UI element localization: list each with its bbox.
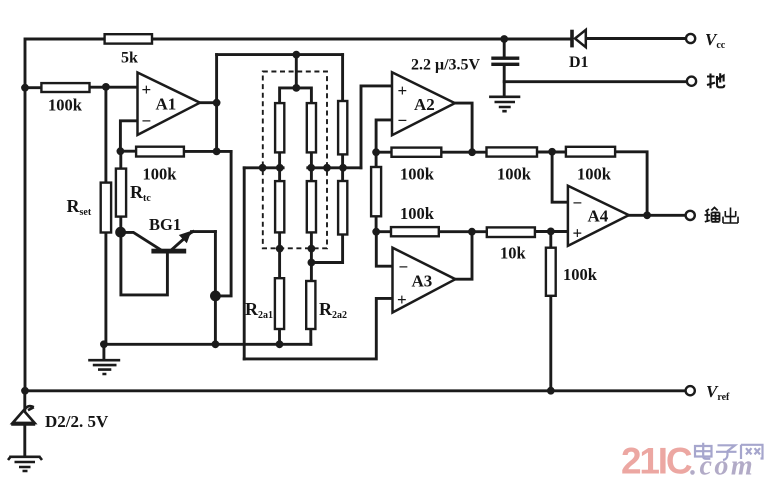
wire row1 segment a: [376, 151, 391, 154]
node dot col2 col3 join: [308, 259, 316, 267]
resistor R2a1: [275, 278, 284, 329]
wire col2 mid leads: [310, 152, 313, 181]
node dot midline col2: [307, 164, 315, 172]
resistor 100k A4 feedback: [566, 147, 615, 157]
resistor bridge col2 lower: [307, 181, 316, 232]
diode D1 bar: [570, 30, 574, 48]
logo chinese dianziwang: [695, 443, 763, 460]
node dot ground bus at R2a1: [276, 340, 284, 348]
svg-text:+: +: [142, 80, 152, 99]
wire A1 output: [200, 101, 217, 104]
wire zener stem upper: [23, 391, 26, 411]
node dot A1 output: [213, 99, 221, 107]
svg-text:100k: 100k: [577, 165, 612, 184]
wire bottom jog to A3 plus: [244, 298, 392, 359]
wire feedback row right: [184, 150, 231, 153]
svg-text:100k: 100k: [48, 96, 83, 115]
node dot y54 rail: [292, 51, 300, 59]
resistor 100k A1 feedback: [136, 147, 184, 157]
node dot midline dash left: [259, 164, 267, 172]
svg-text:21IC: 21IC: [621, 441, 692, 482]
transistor BG1 base lead: [121, 232, 167, 295]
svg-text:5k: 5k: [121, 50, 138, 67]
wire bridge midline right half: [308, 166, 361, 169]
resistor 100k vertical x551: [546, 248, 556, 296]
resistor 10k: [487, 227, 535, 237]
node dot midline dash right: [323, 164, 331, 172]
resistor col3 upper: [338, 101, 347, 154]
label output chinese shuchu: [705, 208, 739, 224]
svg-text:100k: 100k: [497, 165, 532, 184]
wire col3 mid leads: [341, 154, 344, 181]
svg-text:R2a2: R2a2: [319, 299, 347, 321]
node dot Vref rail: [547, 387, 555, 395]
node dot midline col3: [339, 164, 347, 172]
op-amp A1: [138, 73, 200, 135]
diode D1 triangle: [575, 30, 586, 47]
node dot left rail at Vref: [21, 387, 29, 395]
wire A3 minus input: [376, 232, 392, 267]
wire A2 output: [455, 103, 472, 148]
svg-text:D1: D1: [569, 54, 589, 71]
resistor 100k A2 out row: [392, 148, 442, 157]
svg-text:Rset: Rset: [67, 196, 92, 218]
wire bridge mid to A2 plus: [361, 86, 392, 168]
svg-text:2.2 μ/3.5V: 2.2 μ/3.5V: [411, 57, 481, 74]
resistor 100k input: [41, 83, 89, 92]
transistor BG1 collector lead: [121, 232, 162, 250]
wire row2 segment a: [376, 230, 391, 233]
svg-text:+: +: [573, 224, 583, 243]
wire R2a2 lower lead: [309, 329, 312, 344]
wire col3 lower lead joining col2: [311, 235, 342, 263]
svg-text:A2: A2: [414, 95, 435, 114]
resistor 100k row2: [391, 227, 439, 236]
node dot row1 left: [372, 148, 380, 156]
wire col3 upper lead: [341, 55, 344, 101]
svg-text:−: −: [399, 258, 409, 277]
op-amp A4: [568, 186, 629, 246]
terminal ground: [687, 77, 696, 86]
svg-text:−: −: [398, 111, 408, 130]
resistor 100k row1 mid: [487, 147, 538, 156]
resistor 5k: [105, 34, 152, 43]
node dot top rail capacitor: [500, 35, 508, 43]
svg-text:−: −: [142, 112, 152, 131]
op-amp A2: [392, 72, 455, 135]
wire bridge top split: [280, 88, 312, 103]
resistor bridge col1 lower: [275, 181, 284, 232]
svg-text:−: −: [573, 194, 583, 213]
wire ground line to terminal: [504, 80, 687, 83]
terminal Vref: [686, 386, 695, 395]
wire feedback row left: [120, 150, 136, 153]
svg-text:A1: A1: [156, 95, 177, 114]
wire 100k input left lead: [25, 86, 41, 89]
wire vertical 100k resistor leads x376: [375, 152, 378, 167]
resistor R2a2: [306, 281, 315, 329]
label ground chinese di: [707, 73, 724, 88]
wire capacitor stem upper: [503, 39, 506, 57]
node dot feedback left: [117, 147, 125, 155]
svg-text:100k: 100k: [400, 165, 435, 184]
wire R2a1 lower lead: [278, 329, 281, 344]
wire top rail right segment: [586, 37, 686, 40]
terminal output: [686, 211, 695, 220]
resistor col3 lower: [338, 181, 347, 235]
wire bridge top vertical: [295, 55, 298, 88]
wire row1 segment d to A4 output node: [615, 152, 647, 216]
wire Vref rail: [25, 389, 686, 392]
wire vertical from A1 output node up to y54 rail: [215, 55, 218, 152]
node dot Rtc BG1 base: [115, 227, 126, 238]
wire col2 lower lead: [310, 232, 313, 281]
svg-text:BG1: BG1: [149, 215, 181, 234]
wire left vertical rail: [24, 39, 27, 391]
wire bridge midline left half: [244, 166, 283, 169]
node dot BG1 emitter: [210, 291, 221, 302]
wire horizontal y54 to bridge: [217, 53, 343, 56]
ground symbol below Rset: [88, 360, 120, 374]
svg-text:A4: A4: [588, 207, 609, 226]
node dot row2 A4 plus: [547, 228, 555, 236]
wire A4 output: [629, 214, 686, 217]
transistor BG1 emitter arrow: [179, 231, 192, 243]
node dot row2 A3 output: [468, 228, 476, 236]
wire top rail left segment: [26, 38, 105, 41]
wire col1 mid leads: [278, 152, 281, 181]
wire top rail middle segment: [152, 38, 570, 41]
resistor Rtc: [116, 169, 126, 217]
wire 100k to A1 plus: [90, 86, 138, 89]
wire row1 segment b: [441, 151, 486, 154]
zener D2 triangle: [13, 410, 35, 423]
resistor bridge col1 upper: [275, 103, 284, 152]
svg-text:+: +: [397, 290, 407, 309]
svg-text:100k: 100k: [563, 265, 598, 284]
wire col1 lower lead: [278, 232, 281, 278]
svg-text:100k: 100k: [400, 204, 435, 223]
wire row2 segment c: [535, 230, 568, 233]
svg-text:.com: .com: [690, 451, 755, 482]
svg-text:Rtc: Rtc: [130, 182, 151, 204]
wire Rset lower lead: [104, 233, 107, 345]
resistor 100k vertical x376: [371, 167, 381, 216]
resistor bridge col2 upper: [307, 103, 316, 152]
capacitor C1 plate bottom: [491, 63, 519, 66]
wire BG1 emitter top run: [192, 230, 216, 233]
node dot left rail at input: [21, 84, 29, 92]
wire Rtc upper lead: [119, 151, 122, 168]
node dot ground bus at emitter: [212, 340, 220, 348]
node dot bridge top: [292, 84, 300, 92]
ground symbol bottom left: [8, 457, 42, 471]
node dot row2 left: [372, 228, 380, 236]
wire A3 output: [455, 233, 472, 279]
node dot A4 output: [643, 211, 651, 219]
wire bridge left vertical down: [243, 168, 246, 359]
transistor BG1 base bar: [151, 249, 186, 254]
svg-text:+: +: [398, 81, 408, 100]
svg-text:100k: 100k: [143, 165, 178, 184]
wire 100k to Vref leads x551: [549, 232, 552, 248]
node dot col2 box bottom: [308, 245, 316, 253]
resistor Rset: [101, 183, 111, 233]
wire zener stem lower: [23, 424, 26, 456]
node dot midline col1: [276, 164, 284, 172]
node dot row1 A4 minus: [548, 148, 556, 156]
wire BG1 emitter to bottom bus: [214, 232, 217, 345]
terminal Vcc: [686, 34, 695, 43]
wire ground bus bottom left: [104, 343, 311, 346]
capacitor C1 plate top: [491, 57, 519, 60]
wire capacitor stem lower: [503, 66, 506, 97]
dashed bridge box: [263, 72, 327, 249]
op-amp A3: [393, 248, 456, 313]
node dot col1 box bottom: [276, 245, 284, 253]
wire A4 minus input: [552, 152, 568, 202]
node dot feedback right: [213, 148, 221, 156]
svg-text:A3: A3: [412, 272, 433, 291]
svg-text:10k: 10k: [500, 244, 527, 263]
ground symbol below capacitor: [489, 97, 520, 111]
node dot A1 plus input: [102, 83, 110, 91]
wire A2 minus input: [376, 120, 392, 152]
svg-text:D2/2. 5V: D2/2. 5V: [45, 412, 109, 431]
wire row2 segment b: [439, 230, 487, 233]
svg-text:Vref: Vref: [706, 382, 730, 403]
wire ground stem left: [102, 344, 105, 359]
node dot row1 A2 output: [468, 148, 476, 156]
zener D2 bar: [11, 406, 35, 424]
node dot ground bus at Rset: [100, 340, 108, 348]
svg-text:R2a1: R2a1: [245, 299, 273, 321]
wire Rtc lower lead: [119, 217, 122, 233]
wire A1 minus input: [120, 121, 137, 151]
wire feedback node down to BG1 emitter node: [215, 151, 231, 296]
wire row1 segment c: [537, 151, 566, 154]
svg-text:Vcc: Vcc: [705, 30, 726, 51]
transistor BG1 emitter lead: [173, 232, 194, 249]
wire Rset upper lead: [104, 87, 107, 183]
